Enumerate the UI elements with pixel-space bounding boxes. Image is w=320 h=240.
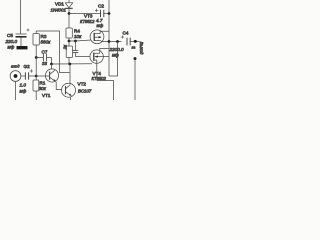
- svg-text:C5: C5: [7, 33, 13, 38]
- svg-text:вход: вход: [11, 64, 20, 69]
- svg-text:G2: G2: [24, 64, 31, 69]
- wire output return: [134, 59, 136, 100]
- svg-text:ВС107: ВС107: [78, 88, 92, 93]
- node junction R4 bottom: [68, 40, 71, 43]
- capacitor C1: [25, 69, 36, 79]
- svg-text:мф: мф: [112, 53, 119, 58]
- svg-text:мф: мф: [8, 44, 15, 49]
- svg-text:VT1: VT1: [42, 93, 51, 98]
- wire output node: [109, 41, 122, 43]
- label VT3: [80, 14, 95, 24]
- svg-text:1.0: 1.0: [20, 83, 27, 88]
- svg-text:2к: 2к: [63, 44, 68, 50]
- svg-text:220.0: 220.0: [5, 39, 18, 44]
- transistor VT2: [62, 83, 76, 100]
- svg-text:C7: C7: [42, 49, 48, 54]
- svg-text:30к: 30к: [39, 86, 47, 91]
- node junction C2 right on rail: [108, 12, 111, 15]
- svg-text:C4: C4: [123, 31, 129, 36]
- svg-text:мф: мф: [97, 23, 104, 28]
- transistor VT1: [45, 64, 61, 90]
- node junction output return: [134, 57, 137, 60]
- label C2 value: [96, 3, 104, 27]
- transistor VT4: [90, 48, 109, 80]
- label input G2: [11, 64, 30, 69]
- wire bias node: [69, 40, 76, 42]
- wire to VT3 base: [76, 40, 92, 41]
- node junction VT1 collector: [50, 63, 53, 66]
- wire R3 top feedback: [36, 31, 69, 73]
- label C5 value: [5, 33, 18, 49]
- svg-text:мф: мф: [20, 88, 27, 93]
- svg-text:VT3: VT3: [84, 14, 93, 19]
- node junction at diode bottom: [68, 12, 71, 15]
- svg-text:КТ8512: КТ8512: [80, 19, 95, 24]
- microphone G2: [10, 71, 25, 100]
- node junction C3 top: [74, 40, 77, 43]
- capacitor C4: [121, 35, 140, 45]
- wire from diode node to C2: [69, 13, 100, 15]
- capacitor C2: [95, 9, 109, 18]
- node junction output rail top: [108, 40, 111, 43]
- wire output branch down: [109, 42, 118, 77]
- resistor R4: [66, 14, 72, 42]
- wire VT2 collector: [69, 64, 71, 84]
- svg-text:560к: 560к: [41, 40, 52, 45]
- label R4 value: [74, 29, 82, 39]
- node junction VT1 base: [35, 75, 38, 78]
- svg-text:2200.0: 2200.0: [109, 47, 124, 52]
- capacitor C7: [36, 54, 51, 64]
- diode VD1: [65, 0, 72, 14]
- label VT4: [92, 71, 107, 81]
- transistor VT3: [90, 30, 109, 44]
- wire left supply rail: [20, 0, 22, 34]
- wire VT4 emitter to bottom: [97, 81, 114, 101]
- node junction output terminal: [134, 40, 137, 43]
- wire mid rail: [52, 63, 93, 65]
- svg-text:R1: R1: [40, 81, 46, 86]
- wire right vertical rail: [108, 0, 110, 76]
- svg-text:C2: C2: [98, 3, 104, 8]
- resistor R5: [66, 41, 72, 64]
- resistor R1: [33, 80, 39, 100]
- wire input node vertical: [35, 58, 37, 81]
- wire R3 bottom: [35, 45, 37, 58]
- wire to VT4 base: [76, 56, 91, 58]
- node junction output branch: [116, 40, 119, 43]
- capacitor C5: [16, 29, 30, 47]
- node junction R3 bottom: [35, 56, 38, 59]
- label C4 value: [109, 31, 129, 58]
- svg-text:VD1: VD1: [55, 2, 64, 7]
- label C1 value: [20, 83, 27, 94]
- label VD1: [51, 2, 67, 13]
- svg-text:VT2: VT2: [78, 82, 87, 87]
- label VT2: [78, 82, 92, 94]
- wire VT1 base: [36, 75, 49, 77]
- svg-text:Выход: Выход: [139, 42, 144, 55]
- label R1 value: [39, 81, 47, 92]
- resistor R3: [33, 31, 39, 45]
- svg-text:1N4001: 1N4001: [51, 8, 67, 13]
- svg-text:R3: R3: [41, 34, 47, 39]
- svg-text:10к: 10к: [74, 34, 82, 39]
- capacitor C3: [73, 41, 79, 57]
- svg-text:33: 33: [42, 61, 47, 66]
- ground: [17, 46, 28, 49]
- label R3 value: [41, 34, 52, 45]
- svg-text:ва: ва: [132, 46, 136, 50]
- label C7 value: [42, 49, 48, 66]
- node junction R5 bottom: [68, 63, 71, 66]
